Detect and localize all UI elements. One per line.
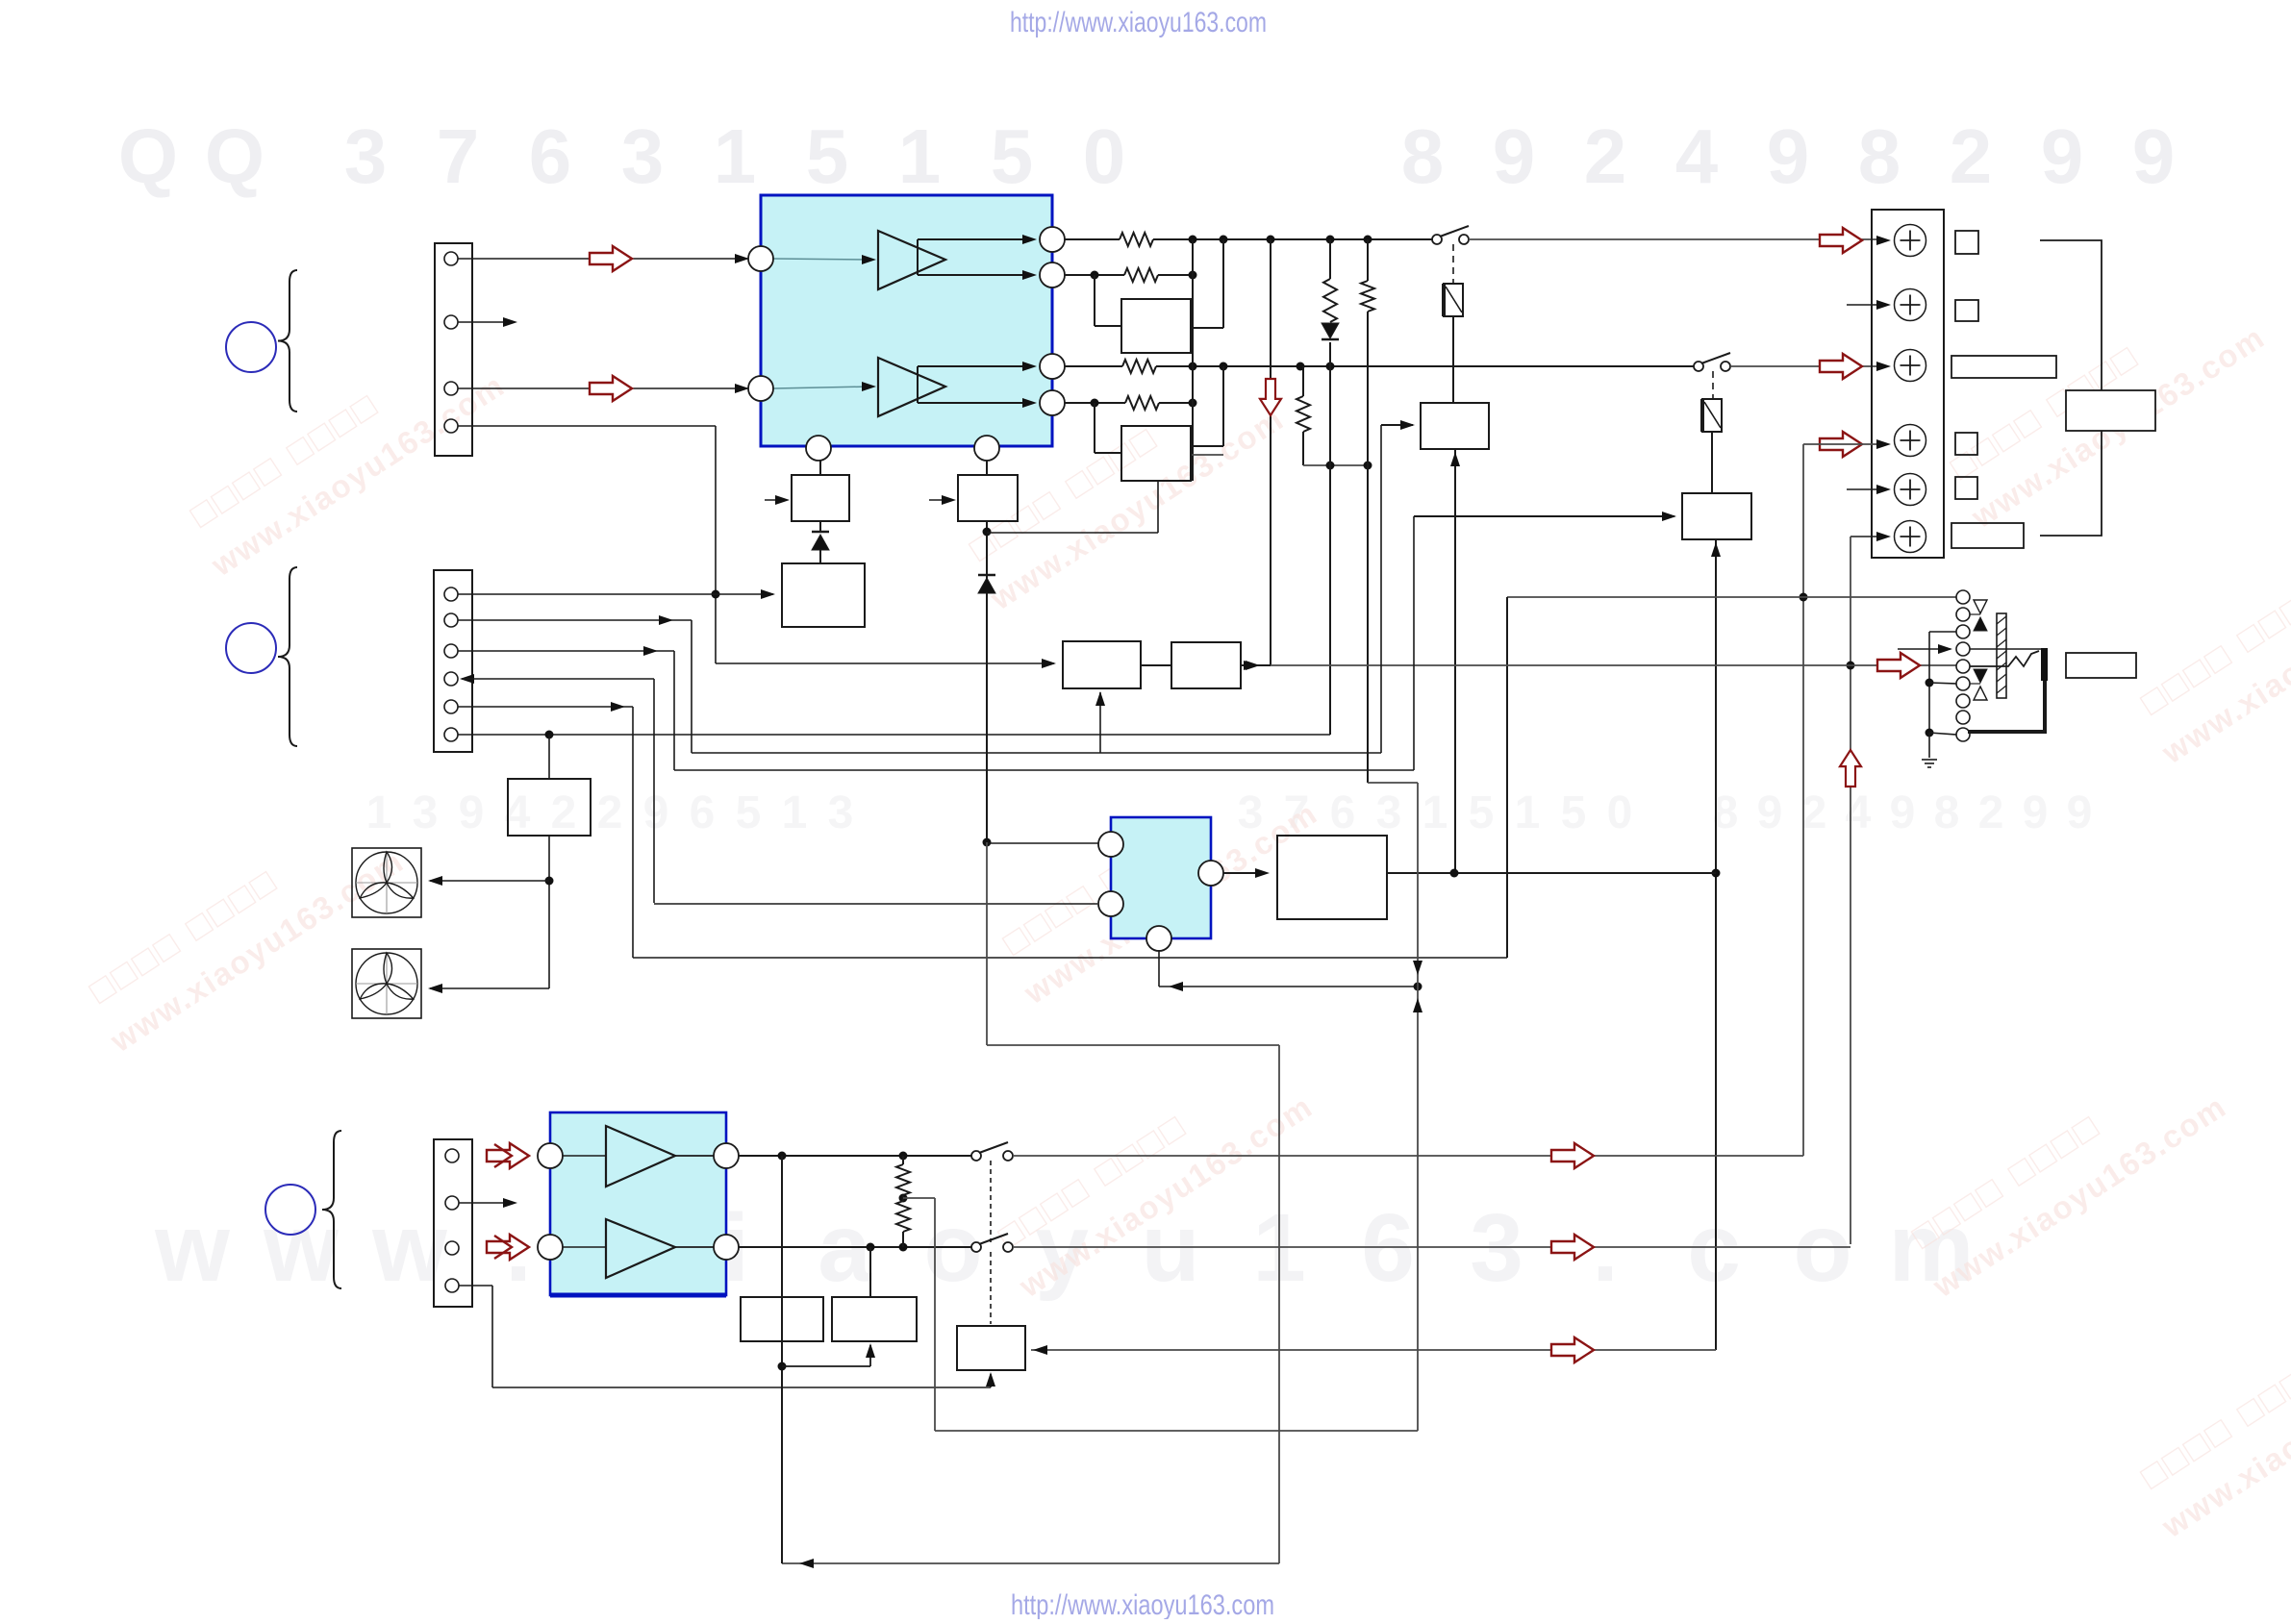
svg-text:3: 3 [828,787,854,838]
svg-text:5: 5 [1561,787,1587,838]
svg-text:w: w [371,1194,447,1302]
svg-text:9: 9 [643,787,669,838]
svg-text:w: w [154,1194,230,1302]
svg-text:2: 2 [1978,787,2004,838]
svg-text:2: 2 [551,787,577,838]
svg-text:1: 1 [714,113,757,199]
svg-text:0: 0 [1607,787,1633,838]
svg-text:http://www.xiaoyu163.com: http://www.xiaoyu163.com [1010,7,1267,38]
svg-text:3: 3 [621,113,665,199]
svg-text:Q: Q [118,113,178,199]
svg-text:2: 2 [597,787,623,838]
svg-text:3: 3 [413,787,439,838]
svg-text:6: 6 [1330,787,1356,838]
svg-text:2: 2 [1801,787,1827,838]
svg-text:Q: Q [205,113,264,199]
svg-text:9: 9 [1493,113,1536,199]
svg-text:5: 5 [991,113,1034,199]
svg-text:3: 3 [1376,787,1402,838]
svg-text:9: 9 [1890,787,1916,838]
svg-text:3: 3 [344,113,388,199]
svg-text:9: 9 [1757,787,1783,838]
svg-text:8: 8 [1858,113,1901,199]
svg-text:9: 9 [1767,113,1810,199]
svg-text:1: 1 [782,787,808,838]
svg-text:9: 9 [2041,113,2084,199]
svg-text:9: 9 [2023,787,2049,838]
svg-text:6: 6 [1361,1194,1415,1302]
svg-text:3: 3 [1470,1194,1523,1302]
svg-text:1: 1 [1422,787,1448,838]
svg-text:http://www.xiaoyu163.com: http://www.xiaoyu163.com [1011,1589,1274,1619]
svg-text:9: 9 [459,787,485,838]
svg-text:8: 8 [1934,787,1960,838]
svg-text:4: 4 [1846,787,1872,838]
svg-text:4: 4 [1675,113,1719,199]
svg-text:2: 2 [1950,113,1993,199]
svg-text:1: 1 [1515,787,1541,838]
svg-text:.: . [1592,1194,1619,1302]
svg-text:5: 5 [806,113,849,199]
svg-text:1: 1 [898,113,942,199]
svg-text:c: c [1687,1194,1741,1302]
svg-text:7: 7 [437,113,480,199]
svg-text:6: 6 [529,113,572,199]
svg-text:9: 9 [2067,787,2093,838]
svg-text:2: 2 [1584,113,1627,199]
svg-text:5: 5 [1469,787,1495,838]
svg-text:0: 0 [1083,113,1126,199]
svg-text:5: 5 [736,787,762,838]
svg-text:6: 6 [690,787,716,838]
svg-text:9: 9 [2132,113,2176,199]
svg-text:8: 8 [1401,113,1445,199]
svg-text:1: 1 [366,787,392,838]
svg-text:o: o [1793,1194,1851,1302]
